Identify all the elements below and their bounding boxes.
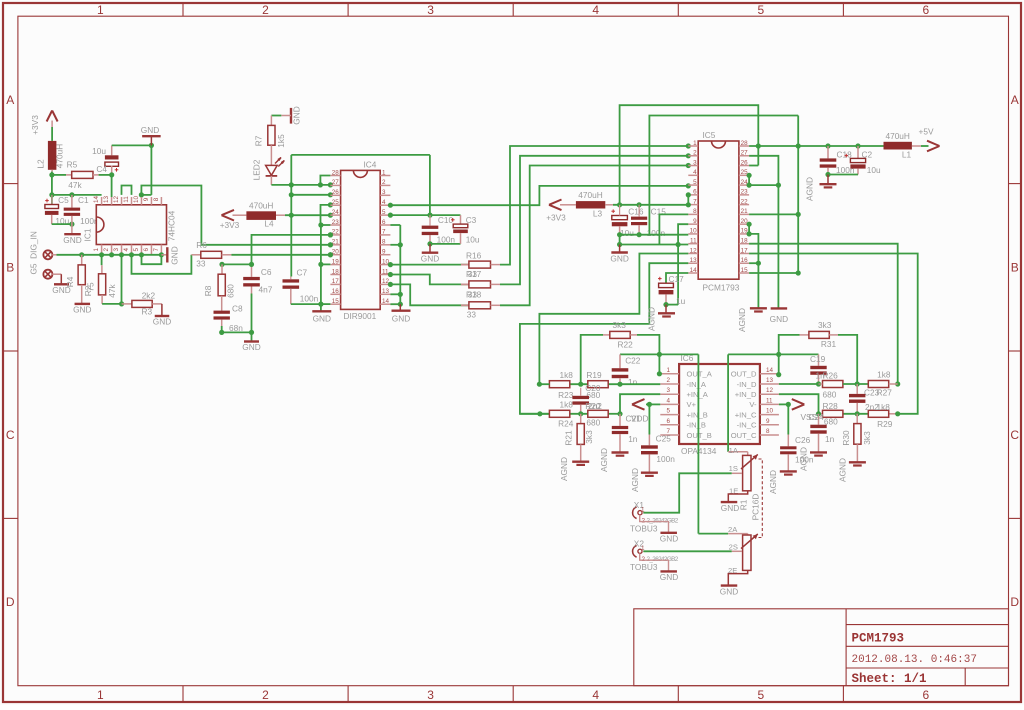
svg-text:C22: C22 <box>625 355 641 365</box>
svg-text:7: 7 <box>153 248 160 252</box>
ground GND under C6 <box>251 332 253 341</box>
resistor R30 <box>856 414 858 424</box>
wire pin22 line <box>252 235 331 265</box>
wire gnd to C17 <box>677 245 679 305</box>
wire pin18 line <box>749 244 898 384</box>
wire pin5 row <box>520 413 550 415</box>
capacitor C23 <box>856 384 858 394</box>
frame column ticks <box>182 3 184 16</box>
capacitor C22 <box>619 354 621 368</box>
wire pin26 jog <box>291 194 330 196</box>
svg-text:33: 33 <box>468 290 478 300</box>
inductor L3 <box>560 204 576 206</box>
svg-text:28: 28 <box>332 169 340 176</box>
svg-text:TOBU3: TOBU3 <box>630 562 658 572</box>
svg-text:10u: 10u <box>620 228 634 238</box>
svg-text:2: 2 <box>693 150 697 157</box>
svg-text:680: 680 <box>226 284 236 298</box>
svg-text:100n: 100n <box>795 454 814 464</box>
svg-text:R28: R28 <box>823 401 839 411</box>
wire pin6 to gnd rail <box>390 224 400 226</box>
svg-text:2k2: 2k2 <box>142 290 156 300</box>
svg-text:3: 3 <box>427 688 434 702</box>
wire pins5-7 loop <box>142 255 162 264</box>
svg-text:1k8: 1k8 <box>877 369 891 379</box>
capacitor C15 <box>631 217 647 220</box>
junction <box>388 213 393 218</box>
IC6 right pins <box>760 373 779 375</box>
svg-text:R26: R26 <box>823 370 839 380</box>
junction <box>219 262 224 267</box>
svg-text:4: 4 <box>382 199 386 206</box>
wire pin26 <box>749 165 758 167</box>
IC U6 OPA4134 box <box>679 364 760 444</box>
svg-text:R30: R30 <box>841 430 851 446</box>
ground AGND under R21 <box>572 461 589 463</box>
wire C18 C2 gnd <box>828 174 858 176</box>
svg-text:4n7: 4n7 <box>259 285 273 295</box>
junction <box>617 242 622 247</box>
svg-text:6: 6 <box>382 219 386 226</box>
rail1 +VDD top <box>620 105 759 205</box>
svg-text:+3V3: +3V3 <box>546 213 566 223</box>
svg-text:R4: R4 <box>65 276 75 287</box>
junction <box>69 192 74 197</box>
svg-text:16: 16 <box>332 288 340 295</box>
resistor R22 feedback <box>581 335 603 384</box>
wire 2S to X2 <box>643 550 731 552</box>
svg-text:6: 6 <box>923 3 930 17</box>
svg-text:4: 4 <box>693 169 697 176</box>
svg-text:L4: L4 <box>264 218 274 228</box>
svg-text:8: 8 <box>153 197 160 201</box>
svg-text:2: 2 <box>103 248 110 252</box>
svg-text:GND: GND <box>242 342 260 352</box>
wire +3V3 rail <box>52 194 102 196</box>
svg-text:9: 9 <box>693 218 697 225</box>
potentiometer R1 section1 <box>728 451 748 453</box>
junction <box>776 183 781 188</box>
svg-text:C8: C8 <box>232 304 243 314</box>
svg-text:C: C <box>1010 428 1019 442</box>
ground AGND under C25 <box>641 472 658 474</box>
svg-text:+IN_C: +IN_C <box>735 410 757 419</box>
svg-text:GND: GND <box>73 305 91 315</box>
IC4 right pins <box>380 175 390 177</box>
svg-text:680: 680 <box>823 390 837 400</box>
svg-text:GND: GND <box>153 317 171 327</box>
junction <box>647 402 652 407</box>
wire gnd line2 <box>620 244 689 246</box>
capacitor C26 <box>787 404 789 434</box>
svg-text:1k8: 1k8 <box>560 370 574 380</box>
svg-text:1: 1 <box>97 688 104 702</box>
IC4 right gnd rail <box>399 225 401 304</box>
svg-text:C16: C16 <box>628 207 644 217</box>
wire V+ node <box>646 403 660 405</box>
IC1 bottom pins <box>101 245 103 255</box>
svg-text:470uH: 470uH <box>55 144 65 168</box>
wire OUT_D down <box>727 354 729 451</box>
svg-text:R21: R21 <box>564 430 574 446</box>
svg-text:Sheet: 1/1: Sheet: 1/1 <box>852 672 927 686</box>
capacitor C6 <box>251 264 253 277</box>
capacitor C10 <box>422 226 439 229</box>
resistor R3 <box>122 303 132 305</box>
wire R18 to IC5 pin3 <box>500 166 688 306</box>
svg-text:A: A <box>6 93 14 107</box>
svg-text:2: 2 <box>262 688 269 702</box>
svg-text:9: 9 <box>382 249 386 256</box>
capacitor C3 <box>460 215 462 224</box>
wire pin21 <box>749 213 798 215</box>
capacitor C4 <box>111 145 113 155</box>
ground AGND under C21 <box>612 451 629 453</box>
svg-text:AGND: AGND <box>737 308 747 332</box>
wire pin8 jog <box>659 214 688 244</box>
svg-text:AGND: AGND <box>559 457 569 481</box>
svg-text:C17: C17 <box>669 274 685 284</box>
svg-text:R22: R22 <box>618 340 634 350</box>
wire +5V rail <box>749 145 883 147</box>
svg-text:6: 6 <box>693 189 697 196</box>
wire pin4 to R6 <box>132 255 192 274</box>
svg-text:3: 3 <box>427 3 434 17</box>
svg-text:DIR9001: DIR9001 <box>344 311 377 321</box>
svg-text:1: 1 <box>693 140 697 147</box>
junction <box>289 182 294 187</box>
wire pin9 jog <box>678 224 688 244</box>
svg-text:16: 16 <box>741 257 749 264</box>
svg-text:13: 13 <box>103 196 110 204</box>
wire R16 to IC5 pin1 <box>500 146 688 265</box>
svg-text:6: 6 <box>143 248 150 252</box>
wire pin13 row <box>779 383 819 385</box>
wire <box>271 115 281 117</box>
svg-text:2: 2 <box>667 377 671 384</box>
svg-text:C4: C4 <box>96 164 107 174</box>
svg-text:GND: GND <box>421 254 439 264</box>
junction <box>388 272 393 277</box>
wire <box>430 243 461 245</box>
wire pins6-7 tie <box>687 195 689 205</box>
svg-text:11: 11 <box>766 397 773 404</box>
ground GND under IC5 <box>771 307 788 309</box>
capacitor C8 <box>214 311 230 314</box>
svg-text:GND: GND <box>770 314 788 324</box>
wire pin10 GND jog <box>141 186 330 245</box>
resistor R26 <box>823 381 843 388</box>
svg-text:24: 24 <box>332 209 340 216</box>
wire LED to IC4 pin27 <box>271 184 330 186</box>
svg-text:R16: R16 <box>466 250 482 260</box>
svg-text:26: 26 <box>741 159 749 166</box>
junction <box>328 242 333 247</box>
junction <box>686 143 691 148</box>
svg-text:AGND: AGND <box>805 177 815 201</box>
junction <box>119 301 124 306</box>
svg-text:C24: C24 <box>809 412 825 422</box>
svg-text:+IN_D: +IN_D <box>735 390 757 399</box>
wire pin17 line <box>749 254 918 414</box>
svg-text:R3: R3 <box>142 307 153 317</box>
svg-text:IC4: IC4 <box>364 159 377 169</box>
IC1 top pins <box>101 197 103 205</box>
svg-text:GND: GND <box>141 125 159 135</box>
rail2 top <box>649 116 798 235</box>
svg-text:R29: R29 <box>877 419 893 429</box>
svg-text:33: 33 <box>467 309 477 319</box>
svg-text:470uH: 470uH <box>885 131 909 141</box>
resistor R7 <box>270 116 272 126</box>
wire R20 to pin3 <box>620 394 660 414</box>
resistor R27 <box>868 381 888 388</box>
supply +3V3 arrow at L3 <box>549 200 562 205</box>
capacitor C16 <box>611 210 615 212</box>
svg-text:8: 8 <box>693 208 697 215</box>
svg-text:1S: 1S <box>729 464 738 473</box>
junction <box>786 402 791 407</box>
svg-text:2S: 2S <box>729 543 738 552</box>
junction <box>318 182 323 187</box>
svg-text:15: 15 <box>332 298 340 305</box>
svg-text:1: 1 <box>93 248 100 252</box>
svg-text:LED2: LED2 <box>252 159 262 180</box>
svg-text:33: 33 <box>468 269 478 279</box>
svg-text:3: 3 <box>382 189 386 196</box>
svg-text:5: 5 <box>693 179 697 186</box>
pot gang dashed link <box>759 459 763 538</box>
svg-text:14: 14 <box>382 298 390 305</box>
wire <box>51 127 53 141</box>
wire riser to C10 <box>429 155 431 215</box>
resistor R4 <box>81 255 83 265</box>
wire +3V3 to IC5 pin7 <box>613 204 688 206</box>
svg-text:TOBU3: TOBU3 <box>630 523 658 533</box>
wire pins 12-11 tie <box>122 186 132 195</box>
wire pin19 to agnd <box>749 234 758 308</box>
svg-text:C2: C2 <box>862 150 873 160</box>
svg-text:8: 8 <box>382 239 386 246</box>
junction <box>249 330 254 335</box>
svg-text:D: D <box>1010 595 1019 609</box>
IC U5 PCM1793 box <box>698 141 739 279</box>
ground GND under IC4 right <box>399 304 401 310</box>
wire R6 to IC4 pin20 <box>231 254 330 256</box>
junction <box>328 202 333 207</box>
resistor R6 <box>191 254 200 256</box>
svg-text:C3: C3 <box>466 215 477 225</box>
junction <box>328 232 333 237</box>
svg-text:L2: L2 <box>36 159 46 169</box>
junction <box>388 282 393 287</box>
svg-text:-IN_C: -IN_C <box>737 421 757 430</box>
net bus under IC1 <box>57 254 162 256</box>
svg-text:C19: C19 <box>810 354 826 364</box>
svg-text:28: 28 <box>741 140 749 147</box>
svg-text:R1: R1 <box>739 499 749 510</box>
junction <box>289 213 294 218</box>
IC4 GND rail left <box>320 225 322 311</box>
IC U4 DIR9001 box <box>341 170 381 309</box>
capacitor C5 <box>51 195 53 205</box>
svg-text:1k8: 1k8 <box>560 400 574 410</box>
junction pins left <box>328 232 333 237</box>
svg-text:VDD: VDD <box>631 413 649 423</box>
junction <box>388 203 393 208</box>
supply +3V3 arrow at L4 <box>222 210 235 215</box>
junction <box>756 143 761 148</box>
resistor R16 <box>390 264 469 266</box>
svg-text:23: 23 <box>741 189 749 196</box>
svg-text:OUT_D: OUT_D <box>731 370 757 379</box>
svg-text:14: 14 <box>766 367 774 374</box>
IC6 left pins <box>660 373 679 375</box>
pad DIG_IN <box>43 250 52 259</box>
svg-text:V+: V+ <box>687 400 697 409</box>
svg-text:GND: GND <box>720 586 738 596</box>
svg-text:17: 17 <box>741 247 749 254</box>
pot 1E to GND <box>728 491 747 502</box>
svg-text:4: 4 <box>123 248 130 252</box>
wire pin12 row <box>779 394 819 414</box>
svg-text:C6: C6 <box>261 267 272 277</box>
pad G5 <box>43 270 52 279</box>
wire pin15 <box>749 272 798 274</box>
svg-text:1A: 1A <box>729 446 739 455</box>
svg-text:R19: R19 <box>586 370 602 380</box>
wire V- node <box>779 403 790 405</box>
junction <box>676 242 681 247</box>
svg-text:3k3: 3k3 <box>862 431 872 445</box>
svg-text:AGND: AGND <box>630 468 640 492</box>
junction <box>816 381 821 386</box>
junction <box>686 192 691 197</box>
junction <box>747 173 752 178</box>
svg-text:4: 4 <box>592 3 599 17</box>
svg-text:V-: V- <box>749 400 757 409</box>
wire R17 to IC5 pin2 <box>500 156 688 285</box>
resistor R23 <box>549 381 569 388</box>
junction <box>328 213 333 218</box>
svg-text:1: 1 <box>382 169 386 176</box>
svg-text:12: 12 <box>766 387 774 394</box>
capacitor C21 <box>619 414 621 426</box>
svg-text:+3V3: +3V3 <box>30 115 40 135</box>
svg-text:26: 26 <box>332 189 340 196</box>
svg-text:2: 2 <box>262 3 269 17</box>
svg-text:9: 9 <box>143 197 150 201</box>
resistor R29 <box>868 410 888 417</box>
svg-text:11: 11 <box>690 238 697 245</box>
wire +3V3 riser <box>290 155 292 277</box>
svg-text:IC5: IC5 <box>703 130 716 140</box>
wire L4 to IC4 pin24 <box>285 214 330 216</box>
svg-text:10: 10 <box>766 408 774 415</box>
resistor R28 <box>823 410 843 417</box>
svg-text:470uH: 470uH <box>578 190 602 200</box>
svg-text:5: 5 <box>133 248 140 252</box>
junction <box>617 202 622 207</box>
wire 1S to X1 <box>643 473 731 512</box>
svg-text:22: 22 <box>741 198 749 205</box>
junction <box>328 182 333 187</box>
wire pin2 row <box>570 383 661 385</box>
svg-text:OUT_A: OUT_A <box>687 370 713 379</box>
svg-text:10: 10 <box>133 196 140 204</box>
ground AGND under C17 <box>665 305 667 313</box>
svg-text:L3: L3 <box>593 208 603 218</box>
svg-text:3: 3 <box>693 159 697 166</box>
junction <box>747 222 752 227</box>
junction <box>328 252 333 257</box>
svg-text:PC16D: PC16D <box>751 494 761 521</box>
wire C8/C6 gnd <box>222 331 252 333</box>
svg-text:1k5: 1k5 <box>276 134 286 148</box>
inductor L4 <box>233 214 247 216</box>
junction <box>49 172 54 177</box>
svg-text:9: 9 <box>766 418 770 425</box>
svg-text:B: B <box>6 260 14 274</box>
pot 2E to GND <box>728 570 747 585</box>
resistor R17 <box>390 275 469 285</box>
junction <box>49 192 54 197</box>
resistor R31 feedback <box>779 335 800 375</box>
ground GND under C10 <box>429 244 431 253</box>
svg-text:680: 680 <box>586 417 600 427</box>
svg-text:6: 6 <box>923 688 930 702</box>
svg-text:G5: G5 <box>29 263 39 274</box>
ground GND above IC1 <box>150 137 152 146</box>
wire pins20-19 tie <box>748 224 750 234</box>
svg-text:C5: C5 <box>58 195 69 205</box>
svg-text:C7: C7 <box>297 267 308 277</box>
svg-text:GND: GND <box>660 534 678 544</box>
svg-text:GND: GND <box>313 314 331 324</box>
ground GND right of R7 <box>290 108 292 124</box>
svg-text:GND: GND <box>610 254 628 264</box>
junction <box>825 172 830 177</box>
svg-text:R2: R2 <box>83 285 93 296</box>
svg-text:R7: R7 <box>254 135 264 146</box>
svg-text:3k3: 3k3 <box>613 320 627 330</box>
svg-text:IC1: IC1 <box>83 228 93 241</box>
title block box <box>634 609 1009 686</box>
junction <box>109 172 114 177</box>
ground AGND under IC5 <box>750 307 767 309</box>
svg-text:OUT_C: OUT_C <box>731 431 757 440</box>
svg-text:GND: GND <box>170 246 180 264</box>
svg-text:4: 4 <box>592 688 599 702</box>
svg-text:B: B <box>1011 260 1019 274</box>
svg-text:R27: R27 <box>877 388 893 398</box>
svg-text:1: 1 <box>641 545 645 552</box>
svg-text:GND: GND <box>721 503 739 513</box>
wire pin13 route <box>520 263 688 414</box>
svg-text:6: 6 <box>667 418 671 425</box>
wire pins25-24 tie <box>748 175 750 185</box>
svg-text:10u: 10u <box>466 235 480 245</box>
svg-text:-IN_D: -IN_D <box>737 380 757 389</box>
wire pin16 <box>749 262 758 264</box>
ground AGND under C26 <box>780 470 797 472</box>
wire pin3 down <box>121 255 123 304</box>
svg-text:5: 5 <box>382 209 386 216</box>
resistor R5 <box>52 174 66 176</box>
svg-text:2012.08.13. 0:46:37: 2012.08.13. 0:46:37 <box>852 654 977 666</box>
supply +3V3 arrow top-left <box>47 111 53 122</box>
svg-text:D: D <box>6 595 15 609</box>
